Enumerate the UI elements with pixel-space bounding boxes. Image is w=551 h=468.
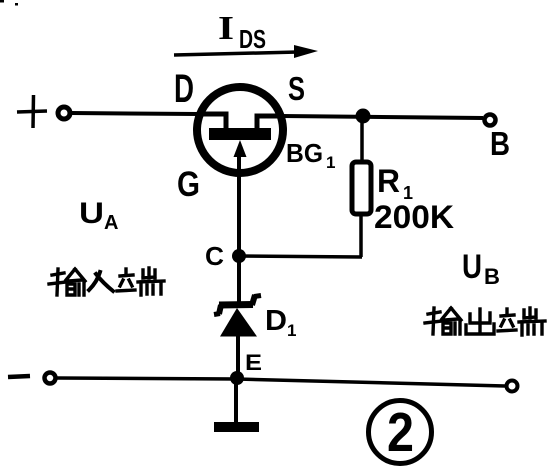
transistor BG1 source lead [257,116,284,129]
transistor BG1 (JFET) body circle [197,87,283,173]
label UB [462,248,500,289]
transistor BG1 channel bar [209,128,271,140]
svg-text:U: U [79,197,104,230]
svg-text:BG: BG [286,138,323,168]
terminal bottom-left open circle [45,373,56,384]
terminal bottom-right open circle [507,381,518,392]
terminal B open circle [485,115,496,126]
svg-text:I: I [218,10,234,47]
wire top-right rail [282,116,483,118]
wire corner to node C [239,256,362,257]
label 输入端 (input terminal) [49,268,164,295]
char 入 [89,272,113,291]
svg-text:DS: DS [239,24,266,54]
svg-text:200K: 200K [374,199,454,235]
svg-text:S: S [288,70,305,107]
wire zener D1 to node E [236,336,240,378]
scan corner mark [0,0,18,6]
svg-text:R: R [377,163,400,199]
char 输 [49,269,85,295]
zener diode D1 anode triangle [220,308,257,337]
svg-text:E: E [245,350,262,375]
label D1 [265,305,296,340]
svg-text:1: 1 [326,153,335,172]
wire gate down to node C [237,150,241,256]
char 端 [117,268,164,295]
label R1 [377,163,413,203]
label BG1 [286,138,335,172]
svg-text:1: 1 [287,321,296,340]
+ terminal plus sign [17,95,47,128]
svg-text:B: B [490,125,510,162]
label 输出端 (output terminal) [425,308,545,335]
svg-text:2: 2 [387,401,414,463]
svg-text:D: D [174,67,194,111]
junction node at S/R1 [356,109,371,124]
label IDS [218,10,266,54]
svg-text:B: B [484,264,500,289]
svg-text:G: G [177,165,200,204]
zener diode D1 cathode bar [214,295,261,315]
wire left rail to transistor [71,113,198,114]
svg-text:A: A [104,212,118,234]
svg-text:D: D [265,305,287,337]
ground [214,422,259,432]
char 端 [498,308,545,335]
figure number 2 circled [369,401,432,464]
current arrow IDS [174,45,318,58]
svg-text:C: C [205,241,224,271]
terminal A open circle [58,107,70,119]
svg-text:U: U [462,248,482,286]
wire node E to ground [234,378,238,425]
wire node C to zener D1 [237,256,241,303]
wire R1 bottom to corner [359,213,363,257]
transistor BG1 gate arrow [234,140,247,157]
bottom rail wire [57,378,505,386]
char 输 [425,308,461,334]
- terminal minus sign [8,376,30,377]
resistor R1 [352,162,371,214]
char 出 [466,309,494,334]
label UA [79,197,118,234]
node C junction dot [232,249,246,263]
wire junction to R1 [360,116,364,164]
node E junction dot [230,371,244,385]
transistor BG1 drain lead [198,114,226,129]
